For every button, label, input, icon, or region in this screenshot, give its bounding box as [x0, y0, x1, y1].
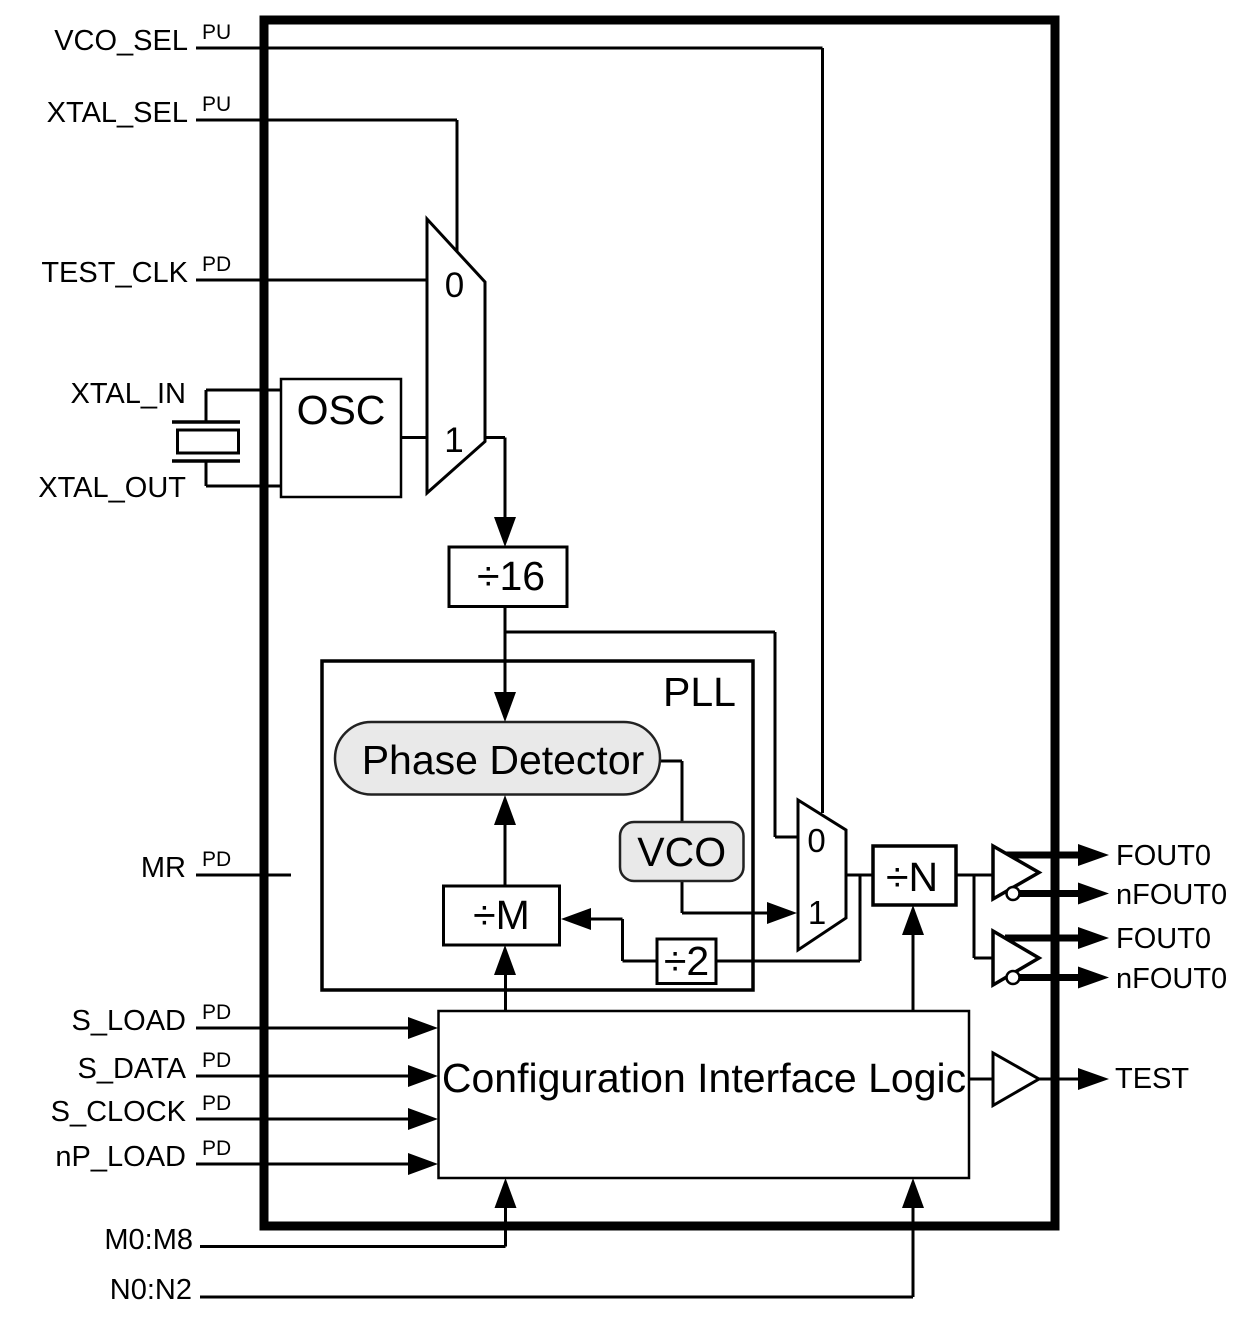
svg-text:1: 1: [808, 894, 826, 931]
svg-text:PD: PD: [202, 1137, 231, 1160]
svg-text:÷2: ÷2: [664, 938, 709, 984]
svg-text:÷N: ÷N: [886, 854, 938, 900]
svg-text:0: 0: [807, 822, 825, 859]
svg-text:S_DATA: S_DATA: [77, 1053, 186, 1085]
svg-text:VCO: VCO: [637, 829, 726, 875]
svg-text:PD: PD: [202, 1049, 231, 1072]
svg-text:S_CLOCK: S_CLOCK: [51, 1096, 187, 1128]
svg-text:nFOUT0: nFOUT0: [1116, 963, 1227, 995]
svg-text:nP_LOAD: nP_LOAD: [55, 1141, 186, 1173]
svg-text:PD: PD: [202, 1001, 231, 1024]
svg-text:PD: PD: [202, 1092, 231, 1115]
svg-text:÷M: ÷M: [473, 892, 530, 938]
svg-text:OSC: OSC: [297, 387, 386, 433]
svg-text:Phase Detector: Phase Detector: [362, 737, 645, 783]
svg-text:÷16: ÷16: [477, 553, 545, 599]
svg-text:VCO_SEL: VCO_SEL: [54, 25, 188, 57]
svg-text:1: 1: [444, 421, 463, 460]
svg-text:FOUT0: FOUT0: [1116, 923, 1211, 955]
svg-text:Configuration Interface Logic: Configuration Interface Logic: [442, 1055, 966, 1101]
svg-text:PLL: PLL: [663, 669, 736, 715]
svg-text:TEST: TEST: [1115, 1063, 1189, 1095]
svg-text:TEST_CLK: TEST_CLK: [41, 257, 188, 289]
svg-text:XTAL_IN: XTAL_IN: [70, 378, 186, 410]
svg-text:PD: PD: [202, 848, 231, 871]
svg-text:N0:N2: N0:N2: [110, 1274, 192, 1306]
svg-text:PU: PU: [202, 93, 231, 116]
svg-text:FOUT0: FOUT0: [1116, 840, 1211, 872]
svg-text:PD: PD: [202, 253, 231, 276]
svg-text:M0:M8: M0:M8: [104, 1224, 193, 1256]
svg-text:XTAL_OUT: XTAL_OUT: [38, 472, 186, 504]
svg-text:XTAL_SEL: XTAL_SEL: [47, 97, 188, 129]
svg-text:S_LOAD: S_LOAD: [72, 1005, 186, 1037]
svg-text:nFOUT0: nFOUT0: [1116, 879, 1227, 911]
svg-text:PU: PU: [202, 21, 231, 44]
svg-text:MR: MR: [141, 852, 186, 884]
svg-text:0: 0: [445, 266, 464, 305]
